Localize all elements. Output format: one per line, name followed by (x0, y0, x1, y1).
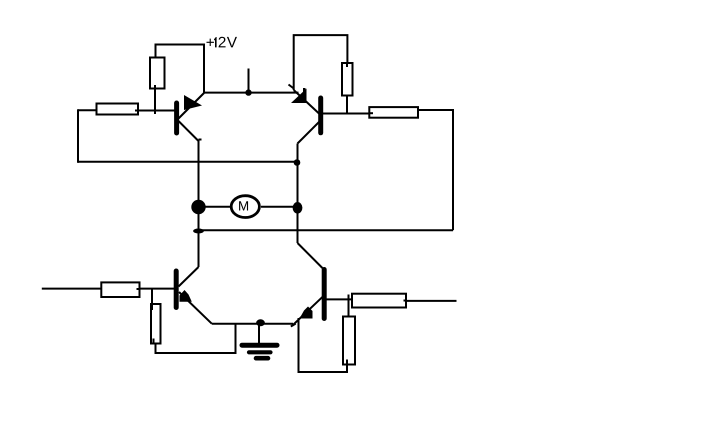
wire left loop horizontal to right rail (78, 161, 298, 163)
wire motor right (261, 206, 298, 208)
node B motor right dot (293, 202, 303, 214)
wire Q4 base line (327, 298, 353, 300)
wire base to R8 top (348, 295, 350, 319)
transistor Q4 base bar (322, 270, 327, 319)
wire bottom emitter horizontal (212, 323, 293, 325)
wire Q3 emitter diagonal (179, 292, 212, 324)
wire right vertical loop (452, 110, 454, 230)
ground (242, 345, 277, 358)
node A motor left big dot (191, 200, 205, 214)
node dot top rail (245, 89, 251, 95)
wire top-left corner from R1 top to +12V corner (156, 45, 205, 94)
transistor Q1 base bar (174, 103, 179, 133)
wire R4 interior stub (370, 112, 374, 114)
wire input bottom-left (42, 288, 102, 290)
wire R3 bottom to base line (346, 96, 348, 115)
resistor R1 top-left vertical (150, 58, 165, 89)
resistor R8 bottom-right vertical (343, 317, 355, 365)
wire R3 interior stub (346, 63, 348, 67)
motor M1 body (231, 196, 259, 218)
wire right rail (297, 144, 299, 244)
transistor Q4 emitter arrow (300, 307, 313, 319)
wire base to R6 top (151, 288, 153, 310)
wire right of R7 output (406, 300, 457, 302)
wire R5 interior stub (137, 288, 141, 290)
wire R7 interior stub (404, 300, 407, 302)
wire Q3 base line (140, 288, 175, 290)
resistor R4 Q2 base (369, 107, 418, 118)
wire Q2 emitter arrow tick (289, 85, 294, 89)
wire top-right loop (294, 35, 348, 90)
wire Q4 collector diagonal (298, 243, 323, 268)
net label +12V (206, 37, 236, 48)
resistor R7 Q4 base (352, 294, 406, 308)
wire ground stem (258, 323, 260, 344)
wire motor left (205, 206, 232, 208)
transistor Q3 base bar (174, 271, 179, 308)
wire left loop vertical (77, 109, 79, 163)
wire left rail (198, 140, 200, 268)
wire cross line y230 (199, 229, 454, 231)
wire Q2 emitter diagonal (294, 90, 319, 114)
resistor R6 bottom-left vertical (151, 304, 161, 344)
node dot left rail y230 (193, 229, 204, 234)
wire Q4 emitter to R8 loop (299, 318, 348, 372)
node dot left loop to right rail (294, 159, 301, 166)
wire R1 bottom to Q1 base line (154, 85, 156, 114)
wire R6 bottom loop (156, 324, 236, 353)
resistor R2 Q1 base (97, 104, 139, 115)
resistor R3 top-right vertical (342, 63, 353, 96)
wire +12V center stub (248, 69, 250, 94)
wire R2 interior stub (135, 110, 139, 112)
wire R8 interior stub (346, 360, 348, 365)
wire Q4 emitter diagonal (292, 297, 323, 326)
wire Q1 base line (138, 110, 175, 112)
transistor Q2 emitter arrow (291, 89, 307, 104)
wire R4 to right loop (418, 109, 454, 111)
transistor Q1 emitter arrow (184, 95, 202, 110)
wire R6 interior stub (153, 339, 155, 344)
resistor R5 Q3 base (101, 282, 139, 297)
transistor Q3 emitter arrow (180, 290, 192, 302)
wire Q1 collector corner tick (199, 139, 202, 141)
wire Q4 emitter arrow tick (291, 324, 296, 327)
wire Q2 base line (323, 113, 370, 115)
wire left of R2 (78, 109, 97, 111)
wire Q1 emitter diagonal (179, 93, 205, 119)
node dot ground junction (256, 319, 265, 326)
wire Q1 collector diagonal (179, 121, 199, 141)
wire Q2 collector diagonal (298, 122, 320, 144)
motor M1 label M (239, 201, 248, 210)
wire +12V top rail (204, 92, 299, 94)
transistor Q2 base bar (318, 98, 323, 133)
wire Q3 collector diagonal (179, 267, 199, 287)
